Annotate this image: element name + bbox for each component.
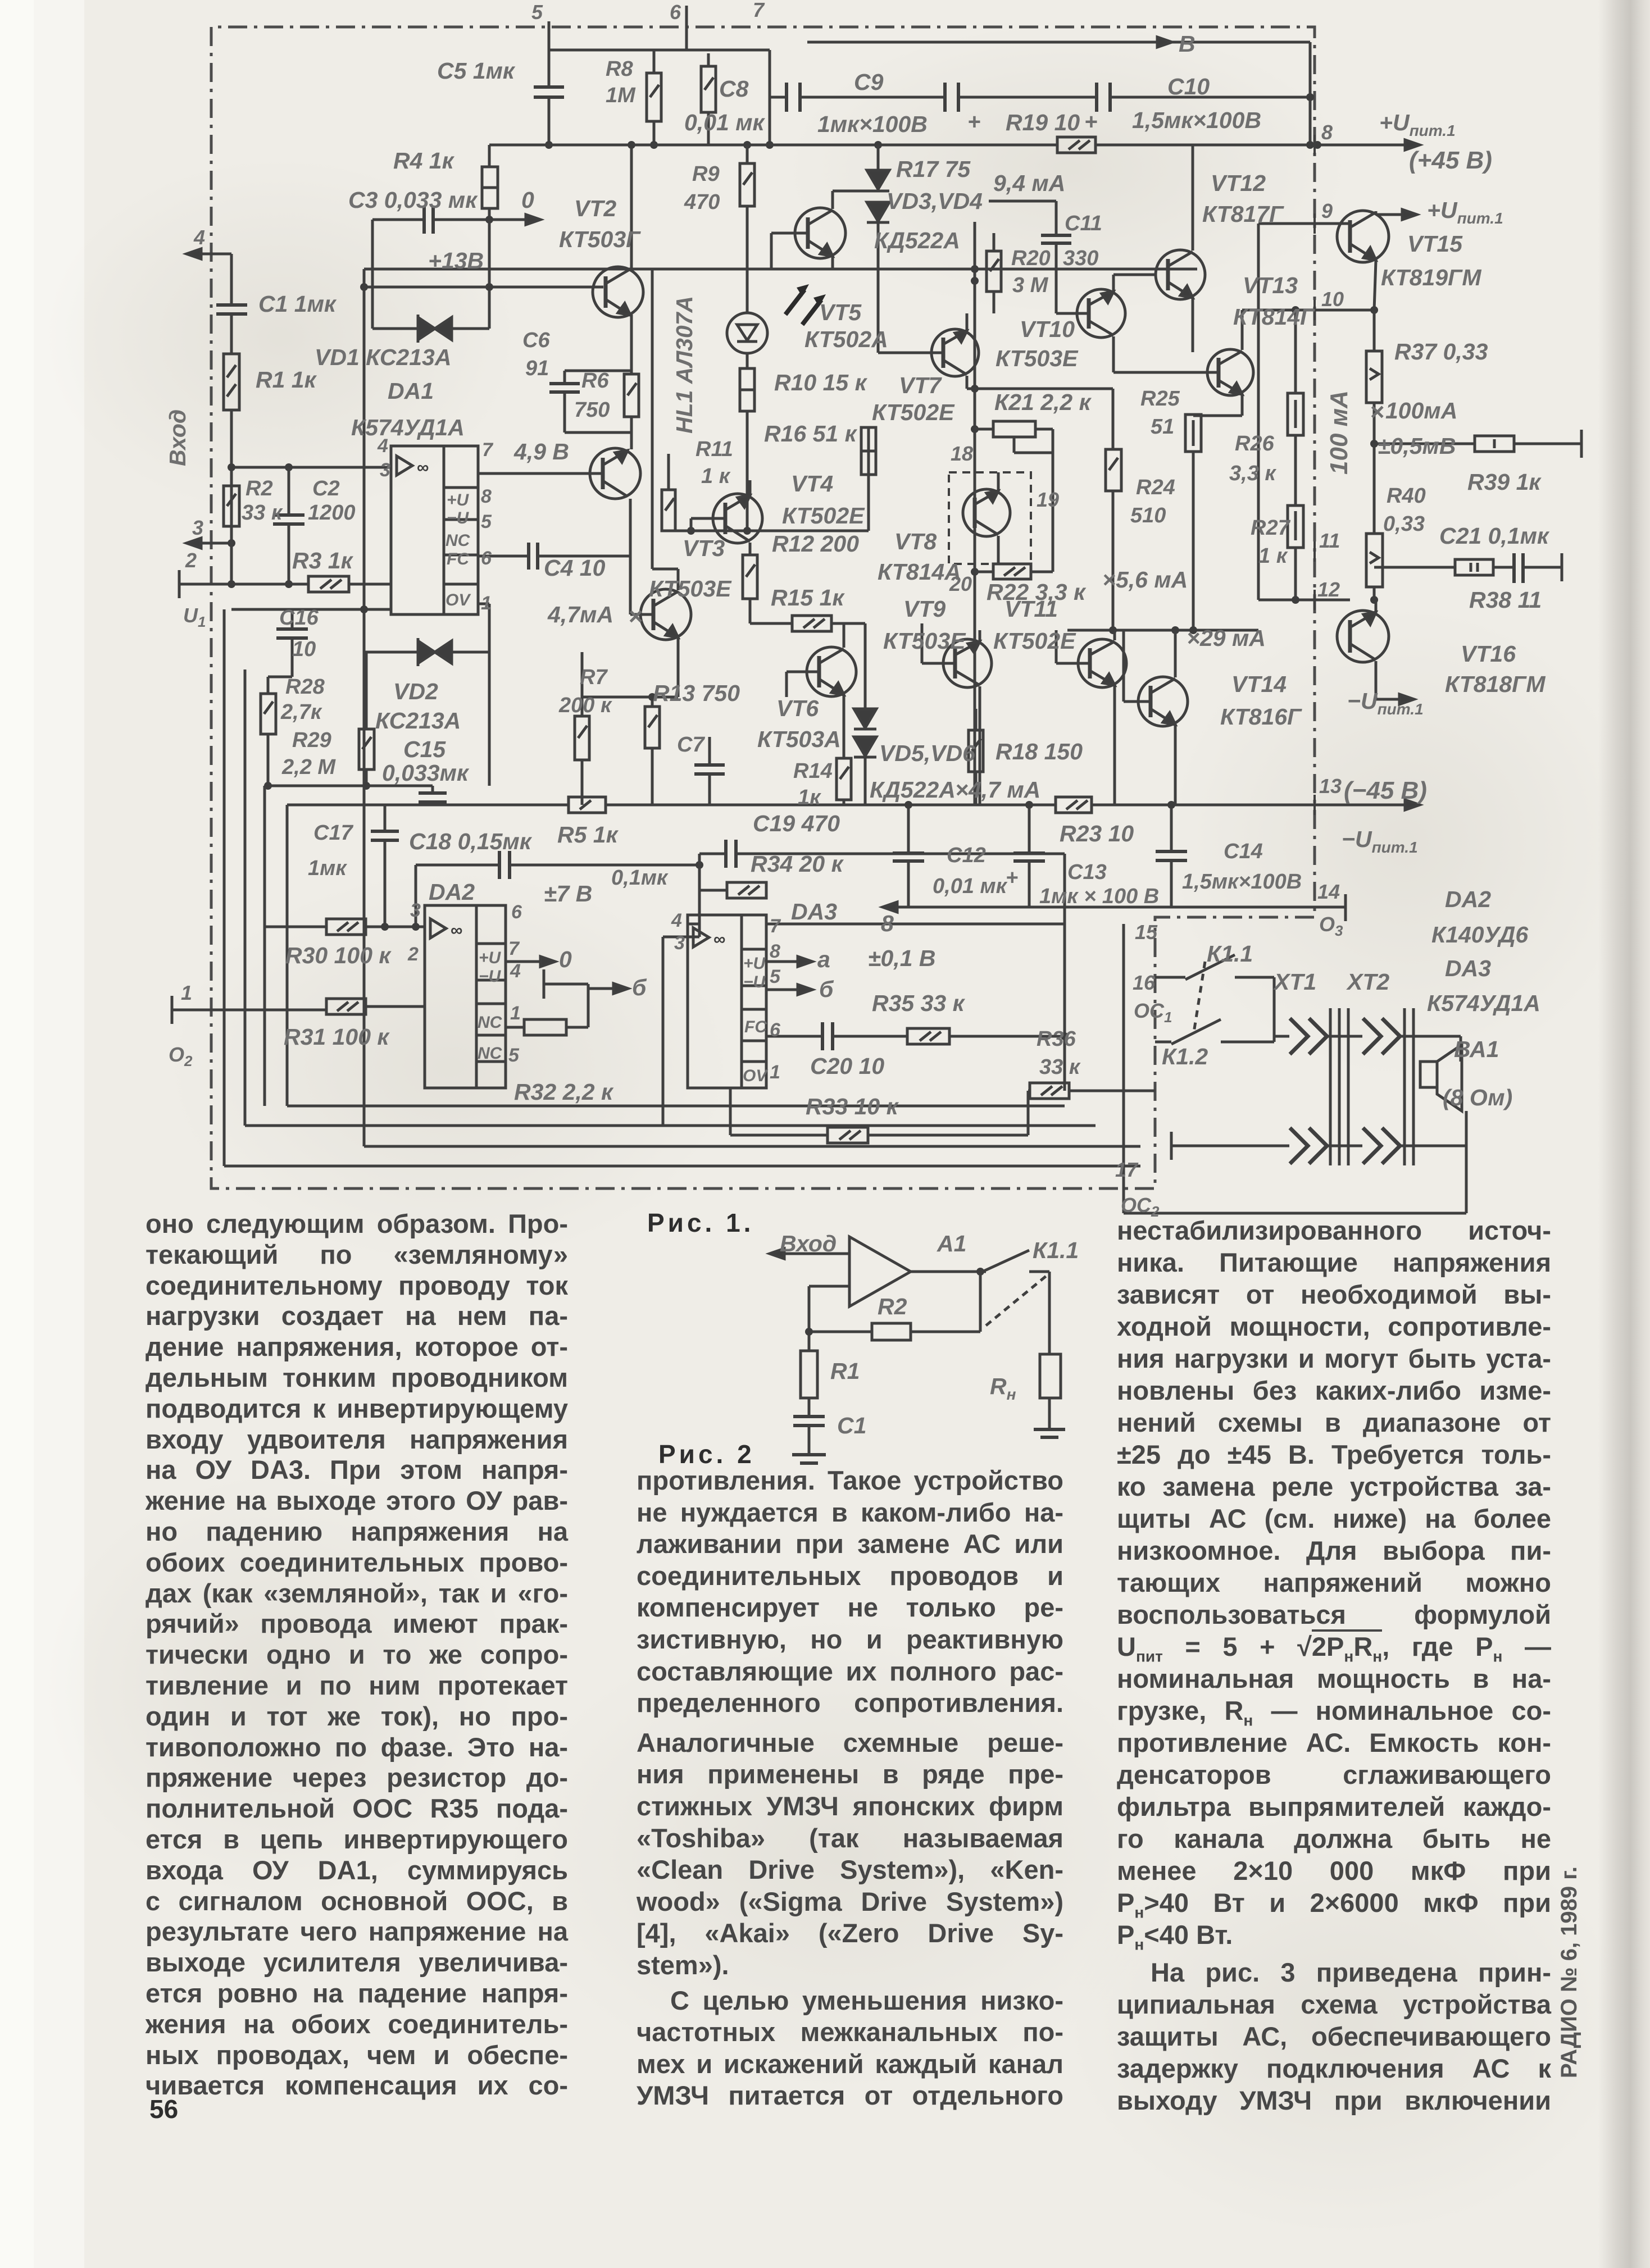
svg-text:НL1 АЛ307А: НL1 АЛ307А: [671, 296, 697, 434]
capacitor C13: [1013, 853, 1045, 861]
svg-text:0: 0: [559, 946, 572, 972]
svg-text:±0,1 В: ±0,1 В: [868, 945, 936, 971]
svg-text:VT6: VT6: [776, 695, 819, 721]
wire VD1 risers: [372, 220, 489, 329]
svg-text:11: 11: [1319, 529, 1340, 552]
diode VD4: [867, 202, 889, 269]
resistor R14: [837, 758, 851, 805]
svg-text:DA1: DA1: [388, 378, 434, 404]
svg-text:РАДИО № 6, 1989 г.: РАДИО № 6, 1989 г.: [1557, 1866, 1581, 2078]
capacitor C1: [216, 305, 247, 314]
svg-text:0,1мк: 0,1мк: [611, 866, 669, 890]
svg-text:1: 1: [181, 981, 192, 1004]
transistor VT3: [630, 589, 691, 640]
resistor R34: [727, 882, 766, 898]
resistor R6: [624, 374, 639, 417]
svg-text:14: 14: [1317, 880, 1340, 903]
transistor VT1: [590, 448, 640, 499]
pin ticks on border: [1313, 135, 1316, 815]
transistor VT16: [1337, 596, 1414, 704]
svg-text:0,01 мк: 0,01 мк: [684, 110, 766, 135]
svg-text:6: 6: [481, 548, 492, 569]
resistor R22: [975, 564, 1053, 579]
svg-text:1мк × 100 В: 1мк × 100 В: [1039, 885, 1159, 908]
svg-text:NC: NC: [478, 1013, 503, 1032]
svg-text:VT8: VT8: [894, 529, 937, 554]
capacitor C7: [694, 737, 725, 805]
wire VT2 base: [364, 283, 603, 291]
svg-text:К1.2: К1.2: [1162, 1044, 1208, 1069]
svg-text:R29: R29: [292, 728, 331, 752]
terminal O2: [172, 996, 326, 1024]
svg-text:6: 6: [511, 901, 522, 923]
svg-text:0,01 мк: 0,01 мк: [933, 875, 1008, 898]
resistor R32: [506, 969, 628, 1035]
svg-text:R39 1к: R39 1к: [1467, 469, 1542, 495]
svg-text:КТ503Е: КТ503Е: [996, 345, 1079, 371]
zener VD1: [372, 315, 489, 343]
resistor R37: [1366, 306, 1382, 444]
svg-text:К1.1: К1.1: [1207, 941, 1253, 967]
resistor R30: [326, 919, 366, 935]
wire y945: [669, 527, 869, 535]
svg-text:±0,5мВ: ±0,5мВ: [1378, 433, 1456, 459]
diode VD3: [867, 145, 889, 191]
wire DA2 out arrow O: [506, 957, 555, 967]
svg-text:КТ814А: КТ814А: [878, 559, 961, 585]
wire 29mA line: [1067, 626, 1258, 634]
svg-text:750: 750: [574, 398, 610, 422]
svg-text:18: 18: [951, 442, 973, 465]
svg-text:VT11: VT11: [1004, 596, 1058, 622]
wire OC bus: [1124, 924, 1140, 1213]
svg-text:5: 5: [531, 1, 543, 24]
relay contact K1.1: [1155, 955, 1274, 1036]
svg-text:R10 15 к: R10 15 к: [774, 370, 868, 395]
svg-text:10: 10: [292, 637, 316, 661]
svg-text:С21 0,1мк: С21 0,1мк: [1439, 523, 1550, 549]
wire input column: [230, 254, 233, 584]
svg-text:330: 330: [1063, 247, 1098, 270]
resistor R20: [987, 233, 1001, 313]
capacitor C9: [945, 83, 958, 112]
wire left nest verticals: [224, 609, 287, 1166]
svg-text:R6: R6: [581, 369, 609, 393]
resistor R28: [261, 677, 276, 786]
svg-text:R13 750: R13 750: [653, 680, 740, 706]
svg-text:VT4: VT4: [791, 471, 833, 497]
svg-text:(+45 В): (+45 В): [1409, 147, 1492, 174]
wire C8 C9 C10 line: [770, 93, 1314, 101]
capacitor C8: [787, 83, 800, 112]
wire left bus x648: [360, 269, 368, 1146]
svg-text:51: 51: [1151, 415, 1174, 439]
svg-text:VT13: VT13: [1243, 272, 1298, 298]
svg-text:R1: R1: [830, 1358, 860, 1384]
svg-text:R19 10: R19 10: [1006, 110, 1080, 135]
svg-text:1200: 1200: [308, 501, 356, 525]
svg-text:С19 470: С19 470: [753, 810, 840, 836]
diode VD5: [854, 709, 876, 729]
svg-text:+: +: [1084, 110, 1097, 134]
svg-text:КТ503Е: КТ503Е: [883, 628, 966, 654]
transistor VT4: [691, 480, 762, 543]
svg-text:2: 2: [407, 944, 419, 965]
resistor R11: [662, 454, 675, 531]
svg-text:КТ503Е: КТ503Е: [649, 576, 732, 602]
resistor R10: [740, 368, 754, 531]
svg-text:470: 470: [684, 190, 720, 214]
svg-text:6: 6: [670, 1, 681, 24]
svg-text:VT16: VT16: [1461, 641, 1516, 667]
diode VD6: [854, 737, 876, 805]
wire R33 line: [730, 1088, 1028, 1135]
svg-text:VT15: VT15: [1407, 231, 1463, 257]
svg-text:3: 3: [192, 516, 203, 539]
resistor R8: [647, 50, 661, 149]
capacitor C18: [416, 851, 703, 927]
wire VT3 emitter / R13: [582, 639, 678, 707]
svg-text:R34 20 к: R34 20 к: [751, 851, 844, 877]
svg-text:R17 75: R17 75: [896, 156, 971, 182]
svg-text:R32 2,2 к: R32 2,2 к: [514, 1079, 614, 1105]
svg-text:15: 15: [1135, 921, 1158, 944]
transistor VT15: [1258, 210, 1417, 310]
transistor VT14: [1124, 630, 1188, 805]
terminal 4: [187, 249, 231, 259]
svg-text:5: 5: [481, 511, 492, 532]
svg-text:5: 5: [508, 1045, 520, 1066]
resistor R8: [701, 53, 716, 145]
resistor R24: [1106, 389, 1121, 630]
svg-text:КТ817Г: КТ817Г: [1202, 201, 1284, 227]
svg-text:19: 19: [1037, 488, 1059, 511]
zener VD2: [364, 638, 489, 786]
svg-text:−U: −U: [447, 509, 470, 527]
svg-text:VT5: VT5: [819, 299, 862, 325]
svg-text:VT10: VT10: [1020, 316, 1075, 342]
svg-text:8: 8: [1321, 121, 1333, 144]
resistor R9: [740, 145, 754, 313]
svg-text:С6: С6: [522, 329, 550, 352]
svg-text:В: В: [1179, 31, 1196, 57]
connector XT1 XT2 top row: [1274, 1018, 1461, 1054]
svg-text:9: 9: [1321, 199, 1333, 222]
svg-text:3 М: 3 М: [1012, 274, 1049, 297]
figure2 C1: [793, 1398, 825, 1455]
svg-text:R26: R26: [1235, 432, 1275, 456]
speaker BA1: [1420, 1036, 1466, 1146]
wire node input: [228, 463, 391, 471]
svg-text:×4,7 мА: ×4,7 мА: [955, 777, 1040, 803]
capacitor C14: [1156, 851, 1187, 860]
svg-text:FC: FC: [447, 550, 470, 568]
op-amp DA2: [425, 905, 506, 1088]
svg-text:VT9: VT9: [903, 596, 946, 622]
svg-text:3: 3: [380, 459, 390, 481]
svg-text:К574УД1А: К574УД1А: [351, 415, 465, 440]
svg-text:VT14: VT14: [1231, 671, 1287, 697]
resistor R39: [1475, 436, 1514, 452]
wire C12 C13 C14 bottom: [883, 801, 1346, 921]
resistor R31: [326, 999, 425, 1014]
svg-text:ОV: ОV: [743, 1067, 769, 1085]
capacitor C10: [1097, 83, 1110, 112]
svg-text:К21 2,2 к: К21 2,2 к: [994, 389, 1092, 415]
relay contact K1.2: [1155, 962, 1274, 1044]
svg-text:R24: R24: [1136, 476, 1175, 499]
svg-text:С8: С8: [719, 76, 749, 102]
capacitor C21: [1514, 553, 1523, 583]
svg-text:−U: −U: [479, 967, 502, 986]
transistor VT13: [1193, 310, 1374, 416]
resistor R38: [1455, 559, 1493, 575]
svg-text:13: 13: [1319, 775, 1342, 798]
svg-text:С3 0,033 мк: С3 0,033 мк: [348, 187, 478, 213]
svg-text:R7: R7: [580, 666, 608, 689]
svg-text:1: 1: [510, 1003, 521, 1024]
wire C21 R38 line: [1374, 553, 1562, 581]
transistor VT6: [787, 623, 856, 758]
svg-text:ВА1: ВА1: [1454, 1036, 1499, 1062]
svg-text:VT2: VT2: [574, 195, 616, 221]
svg-text:8: 8: [881, 910, 894, 936]
resistor R27: [1288, 435, 1303, 604]
svg-text:6: 6: [770, 1019, 781, 1041]
svg-text:R2: R2: [878, 1294, 907, 1319]
resistor R23: [1056, 797, 1092, 813]
svg-text:3,3 к: 3,3 к: [1229, 462, 1276, 485]
svg-text:2,7к: 2,7к: [280, 700, 322, 724]
svg-text:+U: +U: [743, 954, 766, 973]
svg-text:3: 3: [410, 900, 421, 921]
svg-text:1: 1: [770, 1062, 780, 1083]
svg-text:DA3: DA3: [1445, 955, 1491, 981]
svg-text:VD1 КС213А: VD1 КС213А: [315, 344, 451, 370]
svg-text:∞: ∞: [417, 458, 429, 477]
svg-text:R31 100 к: R31 100 к: [284, 1024, 390, 1050]
resistor R16: [861, 427, 876, 531]
wire y1399: [264, 782, 433, 790]
wire R3 line: [179, 580, 391, 588]
wire DA1 OV pin: [478, 604, 489, 652]
svg-text:1М: 1М: [606, 84, 636, 107]
svg-text:VT7: VT7: [899, 372, 942, 398]
svg-text:КТ502Е: КТ502Е: [782, 503, 865, 529]
capacitor C16: [268, 597, 385, 677]
svg-text:1,5мк×100В: 1,5мк×100В: [1182, 870, 1302, 894]
svg-text:100 мА: 100 мА: [1325, 390, 1353, 475]
capacitor C3: [372, 206, 540, 234]
svg-text:(8 Ом): (8 Ом): [1443, 1085, 1512, 1110]
svg-text:R9: R9: [692, 162, 720, 186]
svg-text:КТ502Е: КТ502Е: [993, 628, 1076, 654]
resistor R2: [224, 486, 239, 526]
svg-text:∞: ∞: [713, 930, 725, 949]
svg-text:(−45 В): (−45 В): [1344, 777, 1427, 804]
resistor R5: [569, 797, 606, 813]
svg-text:С15: С15: [403, 736, 446, 762]
ink smudge arrows: [785, 284, 826, 325]
resistor R3: [308, 576, 349, 592]
wire C4 line: [478, 499, 630, 614]
svg-text:КТ503Г: КТ503Г: [559, 226, 641, 252]
figure2 output wire: [911, 1268, 986, 1276]
resistor R19: [1057, 137, 1096, 153]
figure2 R1: [801, 1351, 817, 1398]
wire centre column x1735: [971, 222, 979, 805]
wire pin6 pin7 jog: [549, 6, 774, 149]
capacitor C19: [726, 840, 736, 868]
wire 0.5mV line: [1370, 430, 1581, 458]
transistor VT12: [1156, 145, 1205, 352]
resistor R4: [482, 145, 498, 287]
svg-text:91: 91: [525, 357, 549, 380]
svg-text:1мк: 1мк: [308, 857, 347, 880]
svg-text:NC: NC: [478, 1044, 503, 1063]
svg-text:R20: R20: [1011, 247, 1051, 270]
svg-text:R18 150: R18 150: [996, 739, 1083, 764]
wire VT2 collector: [630, 145, 633, 268]
resistor R33: [828, 1127, 868, 1143]
svg-text:С16: С16: [279, 606, 319, 630]
svg-text:+13В: +13В: [428, 248, 484, 274]
figure2 ground left: [792, 1455, 826, 1463]
svg-text:R8: R8: [606, 57, 633, 81]
wire mid rail: [287, 800, 1420, 810]
svg-text:R40: R40: [1387, 484, 1426, 508]
svg-text:20: 20: [949, 572, 972, 595]
figure2 input arrow: [770, 1249, 849, 1259]
svg-text:С9: С9: [854, 69, 884, 95]
svg-text:4: 4: [671, 910, 682, 931]
svg-text:12: 12: [1317, 578, 1340, 601]
svg-text:1: 1: [481, 593, 492, 614]
wire R15 line: [750, 623, 865, 709]
capacitor C15: [419, 786, 447, 805]
svg-text:×29 мА: ×29 мА: [1187, 625, 1266, 651]
wire R30 line: [265, 923, 425, 931]
svg-text:С2: С2: [312, 477, 340, 500]
svg-text:16: 16: [1133, 971, 1156, 994]
wire VT3 collector: [652, 269, 678, 590]
svg-text:К1.1: К1.1: [1033, 1237, 1079, 1263]
svg-text:С12: С12: [947, 844, 986, 867]
svg-text:R11: R11: [696, 438, 733, 461]
transistor VT8 dashed box: [949, 472, 1031, 564]
figure2 ground right: [1034, 1429, 1065, 1437]
wire VT2 emitter loop R6 C6: [565, 315, 631, 449]
svg-text:R36: R36: [1037, 1027, 1076, 1051]
svg-text:R1 1к: R1 1к: [256, 367, 317, 393]
svg-text:4,9 В: 4,9 В: [513, 439, 569, 464]
svg-text:С20 10: С20 10: [810, 1053, 884, 1079]
svg-text:R23 10: R23 10: [1060, 821, 1134, 846]
svg-text:R3 1к: R3 1к: [292, 548, 354, 573]
schematic group placeholder: [172, 6, 1581, 1463]
svg-text:R30 100 к: R30 100 к: [285, 942, 392, 968]
svg-text:×: ×: [628, 603, 643, 630]
svg-text:+: +: [1006, 866, 1018, 890]
svg-text:+U: +U: [479, 949, 502, 967]
svg-text:0: 0: [521, 187, 534, 213]
svg-text:1мк×100В: 1мк×100В: [817, 111, 928, 137]
svg-text:7: 7: [508, 938, 520, 959]
connector cable bars: [1330, 1008, 1413, 1165]
svg-text:С7: С7: [677, 733, 705, 757]
svg-text:200 к: 200 к: [558, 694, 612, 717]
svg-text:Вход: Вход: [165, 409, 190, 466]
svg-text:5: 5: [770, 966, 781, 987]
svg-text:ХТ1: ХТ1: [1273, 969, 1316, 995]
svg-text:1 к: 1 к: [1258, 544, 1288, 568]
svg-text:С10: С10: [1167, 74, 1210, 99]
text column 3: [1117, 1214, 1551, 2116]
transistor VT5: [771, 191, 878, 269]
svg-text:100мА: 100мА: [1385, 398, 1457, 423]
capacitor C2: [273, 467, 304, 584]
resistor R15: [792, 616, 831, 631]
connector bottom row: [1124, 1128, 1466, 1213]
svg-text:а: а: [817, 946, 830, 972]
resistor R29: [359, 652, 374, 786]
svg-text:VT12: VT12: [1211, 170, 1266, 196]
svg-text:КТ818ГМ: КТ818ГМ: [1445, 671, 1546, 697]
svg-text:R28: R28: [285, 675, 325, 699]
resistor R18: [969, 709, 983, 805]
svg-text:R16 51 к: R16 51 к: [764, 421, 858, 447]
svg-text:КТ503А: КТ503А: [757, 726, 841, 752]
capacitor C6: [549, 384, 580, 392]
wire DA3 loops C19 R34: [663, 854, 1065, 1126]
wire pin5 riser / capacitor C5: [534, 21, 564, 149]
svg-text:1 к: 1 к: [701, 464, 731, 488]
svg-text:VD2: VD2: [393, 678, 438, 704]
figure2 R2: [872, 1323, 911, 1340]
svg-text:0,033мк: 0,033мк: [382, 760, 470, 786]
wire pin12 line / VT16: [1258, 310, 1350, 600]
capacitor C12: [893, 853, 924, 861]
svg-text:R33 10 к: R33 10 к: [806, 1094, 899, 1119]
svg-text:R15 1к: R15 1к: [771, 585, 845, 611]
svg-text:2,2 М: 2,2 М: [281, 755, 336, 779]
transistor VT8: [963, 472, 1010, 564]
svg-text:4: 4: [377, 435, 388, 457]
svg-text:4: 4: [193, 226, 205, 249]
svg-text:С1: С1: [837, 1413, 866, 1438]
svg-text:Вход: Вход: [780, 1231, 837, 1256]
svg-text:+U: +U: [447, 491, 470, 509]
svg-text:3: 3: [674, 932, 685, 954]
svg-text:С1 1мк: С1 1мк: [258, 291, 337, 317]
svg-text:±7 В: ±7 В: [544, 881, 592, 907]
svg-text:б: б: [632, 974, 647, 1000]
svg-text:С5 1мк: С5 1мк: [437, 58, 516, 84]
svg-text:б: б: [819, 976, 834, 1002]
svg-text:4,7мА: 4,7мА: [547, 602, 613, 627]
svg-text:VD5,VD6: VD5,VD6: [879, 740, 976, 766]
svg-text:4: 4: [510, 960, 521, 982]
transistor VT11: [1056, 630, 1126, 805]
capacitor C11 + 9.4mA bracket: [989, 201, 1071, 313]
resistor R35: [907, 1028, 949, 1044]
svg-text:DA2: DA2: [429, 879, 475, 905]
figure2 RH: [1040, 1272, 1061, 1429]
svg-text:+: +: [967, 110, 980, 134]
svg-text:33 к: 33 к: [242, 501, 283, 525]
resistor R7: [575, 652, 589, 805]
resistor R26: [1288, 306, 1303, 435]
